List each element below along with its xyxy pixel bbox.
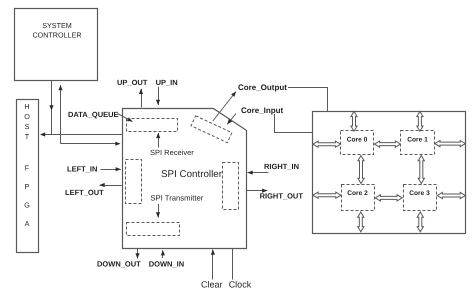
system controller box: [15, 9, 98, 81]
svg-text:Clock: Clock: [229, 280, 252, 290]
wire system controller to host bus: [49, 81, 53, 135]
svg-text:S: S: [25, 122, 30, 131]
left_out arrow: [100, 185, 122, 187]
spi left port buffer: [126, 160, 142, 204]
spi transmitter buffer: [127, 223, 180, 236]
core 3 box: [404, 185, 437, 211]
clock wire: [232, 248, 234, 279]
svg-text:Clear: Clear: [201, 280, 223, 290]
svg-text:F: F: [25, 164, 30, 173]
svg-text:SYSTEM: SYSTEM: [42, 21, 72, 30]
data_queue pointer arrow: [118, 114, 133, 122]
svg-text:Core 3: Core 3: [409, 190, 430, 197]
svg-text:G: G: [24, 201, 30, 210]
spi core port buffer (tilted): [191, 116, 232, 143]
svg-text:DOWN_OUT: DOWN_OUT: [97, 260, 141, 269]
svg-text:SPI Receiver: SPI Receiver: [150, 148, 194, 157]
down_in arrow: [162, 250, 164, 258]
wire spi to host fpga: [40, 132, 122, 136]
svg-text:DATA_QUEUE: DATA_QUEUE: [68, 110, 119, 119]
svg-text:T: T: [25, 132, 30, 141]
svg-text:P: P: [25, 182, 30, 191]
system controller label: [32, 21, 81, 40]
core 1 box: [401, 131, 435, 155]
left_in arrow: [101, 169, 121, 171]
svg-text:DOWN_IN: DOWN_IN: [149, 260, 184, 269]
up_out arrow: [141, 89, 143, 108]
svg-text:Core 0: Core 0: [347, 136, 368, 143]
bus arrow core0 left: [313, 141, 341, 147]
svg-text:SPI Transmitter: SPI Transmitter: [150, 194, 203, 203]
svg-text:LEFT_IN: LEFT_IN: [67, 165, 97, 174]
bus arrow core3 bottom: [417, 212, 423, 232]
svg-text:UP_IN: UP_IN: [156, 78, 178, 87]
up_in arrow: [158, 87, 160, 105]
spi receiver buffer: [127, 119, 178, 132]
down_out arrow: [137, 249, 139, 259]
spi receiver pointer arrow: [158, 133, 160, 148]
wire host bus to spi controller: [61, 142, 121, 146]
spi controller box: [123, 109, 247, 249]
host fpga label: [24, 102, 30, 228]
core_input wire: [275, 114, 313, 133]
spi transmitter pointer arrow: [158, 204, 160, 218]
core 2 box: [342, 185, 375, 211]
core_input pointer arrow: [227, 114, 236, 125]
right_in arrow: [248, 172, 269, 174]
bus arrow core1 right: [435, 141, 466, 147]
svg-text:UP_OUT: UP_OUT: [117, 78, 148, 87]
svg-text:O: O: [24, 112, 30, 121]
svg-text:Core_Output: Core_Output: [238, 83, 287, 92]
core_output wire: [288, 88, 328, 112]
svg-text:Core 1: Core 1: [407, 136, 428, 143]
svg-text:Core 2: Core 2: [347, 190, 368, 197]
host fpga box: [17, 100, 39, 253]
bus arrow core3 right: [437, 192, 465, 198]
core_output pointer arrow: [213, 92, 236, 122]
core 0 box: [341, 131, 374, 155]
spi right port buffer: [223, 163, 239, 210]
bus arrow core0-core1: [375, 141, 401, 147]
bus arrow core2 bottom: [358, 212, 364, 232]
bus arrow core1-core3: [418, 156, 424, 184]
svg-text:SPI Controller: SPI Controller: [161, 169, 223, 180]
clear arrow: [212, 250, 214, 280]
bus arrow core1 top: [417, 111, 423, 131]
bus arrow core0 top: [351, 111, 357, 131]
svg-text:RIGHT_IN: RIGHT_IN: [264, 162, 299, 171]
bus arrow core2-core3: [375, 195, 402, 201]
svg-text:A: A: [25, 219, 30, 228]
svg-text:H: H: [24, 102, 29, 111]
bus arrow core2 left: [313, 192, 341, 198]
svg-text:Core_Input: Core_Input: [241, 106, 284, 115]
core array box: [313, 112, 466, 234]
bus arrow core0-core2: [358, 156, 364, 184]
svg-text:RIGHT_OUT: RIGHT_OUT: [260, 192, 304, 201]
wire host bus up to system controller: [58, 85, 62, 144]
svg-text:LEFT_OUT: LEFT_OUT: [65, 188, 104, 197]
right_out arrow: [247, 190, 268, 192]
svg-text:CONTROLLER: CONTROLLER: [32, 31, 81, 40]
